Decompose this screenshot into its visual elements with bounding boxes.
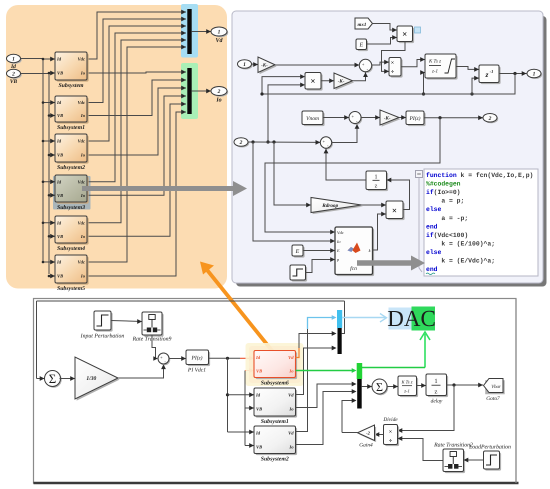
svg-text:if(Vdc<100): if(Vdc<100): [426, 232, 468, 239]
svg-text:Vdc: Vdc: [337, 230, 344, 235]
svg-text:DAC: DAC: [387, 306, 436, 331]
svg-text:2: 2: [217, 89, 221, 95]
svg-text:VB: VB: [57, 234, 63, 239]
svg-text:else: else: [426, 206, 442, 213]
svg-text:×: ×: [392, 205, 397, 215]
svg-text:Vdc: Vdc: [78, 179, 85, 184]
svg-text:%#codegen: %#codegen: [426, 181, 461, 188]
svg-text:Io: Io: [288, 444, 294, 449]
svg-text:fcn: fcn: [350, 266, 357, 272]
svg-text:mx1: mx1: [358, 22, 367, 28]
svg-text:Vdc: Vdc: [78, 139, 85, 144]
svg-text:if(Io>=0): if(Io>=0): [426, 189, 461, 196]
svg-text:×: ×: [310, 76, 315, 86]
svg-text:VB: VB: [57, 274, 63, 279]
svg-text:-K-: -K-: [261, 63, 268, 69]
svg-text:Vdc: Vdc: [78, 57, 85, 62]
svg-text:Gain4: Gain4: [359, 443, 373, 449]
svg-text:Io: Io: [80, 153, 86, 158]
svg-text:-K-: -K-: [338, 79, 345, 85]
svg-text:-1: -1: [490, 69, 494, 74]
svg-text:E: E: [295, 249, 300, 255]
svg-text:Vdc: Vdc: [78, 100, 85, 105]
svg-text:Io: Io: [80, 274, 86, 279]
svg-text:1/30: 1/30: [86, 376, 96, 382]
svg-text:a = -p;: a = -p;: [426, 215, 468, 222]
svg-text:Subsystem4: Subsystem4: [57, 245, 85, 252]
svg-text:VB: VB: [57, 113, 63, 118]
svg-text:VB: VB: [57, 71, 63, 76]
svg-text:Io: Io: [215, 98, 221, 104]
svg-text:Vd: Vd: [288, 393, 294, 398]
svg-text:z: z: [485, 70, 489, 79]
svg-text:Io: Io: [80, 193, 86, 198]
svg-text:1: 1: [533, 72, 536, 78]
svg-text:Subsystem2: Subsystem2: [57, 164, 85, 171]
svg-text:PI(z): PI(z): [409, 116, 421, 122]
svg-text:z: z: [435, 389, 438, 396]
svg-text:Subsystem1: Subsystem1: [57, 124, 85, 131]
svg-text:Subsystem3: Subsystem3: [57, 204, 85, 211]
svg-text:VB: VB: [57, 193, 63, 198]
svg-text:VB: VB: [57, 153, 63, 158]
svg-text:z-1: z-1: [431, 69, 438, 75]
svg-text:PI(z): PI(z): [191, 356, 203, 362]
svg-text:Vbar: Vbar: [491, 384, 501, 390]
svg-text:k = (E/Vdc)^a;: k = (E/Vdc)^a;: [426, 258, 495, 265]
svg-text:K Ts z: K Ts z: [400, 380, 412, 385]
svg-text:Io: Io: [288, 368, 294, 373]
svg-text:+: +: [160, 355, 163, 360]
svg-text:delay: delay: [431, 399, 443, 405]
svg-text:2: 2: [11, 72, 15, 78]
svg-text:2: 2: [239, 140, 243, 146]
svg-text:k: k: [369, 248, 371, 253]
svg-text:+: +: [351, 114, 354, 119]
svg-text:+: +: [362, 62, 365, 67]
svg-text:Vd: Vd: [215, 37, 223, 44]
svg-text:-K-: -K-: [384, 115, 391, 121]
svg-text:Input Perturbation: Input Perturbation: [80, 333, 125, 340]
svg-text:Subsystem5: Subsystem5: [57, 285, 85, 292]
svg-text:Vnom: Vnom: [306, 116, 319, 122]
svg-text:×: ×: [389, 430, 392, 436]
svg-text:×: ×: [391, 61, 394, 67]
svg-text:Subsystem: Subsystem: [58, 82, 84, 89]
svg-text:PI Vdc1: PI Vdc1: [187, 368, 206, 374]
svg-text:Divide: Divide: [382, 417, 398, 423]
svg-text:Vd: Vd: [288, 355, 294, 360]
svg-text:1: 1: [243, 62, 246, 68]
svg-text:Id: Id: [255, 393, 261, 398]
svg-text:1: 1: [434, 378, 437, 385]
svg-text:end: end: [426, 266, 438, 273]
svg-text:Id: Id: [56, 57, 62, 62]
svg-text:Subsystem1: Subsystem1: [261, 418, 289, 425]
svg-text:a = p;: a = p;: [426, 198, 464, 205]
svg-text:z-1: z-1: [403, 389, 410, 394]
svg-text:1: 1: [218, 30, 221, 36]
svg-text:z: z: [375, 184, 378, 190]
svg-text:Id: Id: [255, 431, 261, 436]
svg-text:else: else: [426, 249, 442, 256]
svg-text:Rdroop: Rdroop: [322, 203, 338, 209]
svg-text:2: 2: [488, 116, 492, 122]
svg-text:Σ: Σ: [376, 380, 383, 394]
svg-text:Rate Transition2: Rate Transition2: [433, 443, 473, 449]
svg-text:Io: Io: [80, 113, 86, 118]
svg-text:Subsystem6: Subsystem6: [261, 380, 289, 387]
svg-text:Id: Id: [255, 355, 261, 360]
svg-text:Io: Io: [80, 234, 86, 239]
svg-text:Id: Id: [56, 260, 62, 265]
svg-text:VB: VB: [256, 444, 262, 449]
svg-text:1: 1: [12, 57, 15, 63]
svg-text:end: end: [426, 223, 438, 230]
svg-text:Id: Id: [56, 220, 62, 225]
svg-text:Subsystem2: Subsystem2: [261, 456, 289, 463]
svg-text:1: 1: [375, 175, 378, 181]
svg-text:Σ: Σ: [49, 372, 56, 386]
svg-text:Vd: Vd: [288, 431, 294, 436]
svg-text:function k = fcn(Vdc,Io,E,p): function k = fcn(Vdc,Io,E,p): [426, 172, 533, 179]
svg-text:×: ×: [402, 29, 407, 39]
svg-text:Vdc: Vdc: [78, 260, 85, 265]
svg-text:k = (E/100)^a;: k = (E/100)^a;: [426, 240, 495, 247]
svg-text:E: E: [336, 248, 340, 253]
svg-text:VB: VB: [256, 407, 262, 412]
svg-text:Vdc: Vdc: [78, 220, 85, 225]
svg-text:Id: Id: [56, 100, 62, 105]
svg-text:Goto7: Goto7: [486, 396, 500, 402]
svg-text:Id: Id: [56, 139, 62, 144]
svg-text:Id: Id: [56, 179, 62, 184]
svg-text:LoadPerturbation: LoadPerturbation: [468, 444, 511, 451]
svg-text:VB: VB: [256, 368, 262, 373]
svg-text:E: E: [358, 43, 363, 49]
svg-text:K Ts z: K Ts z: [428, 59, 441, 65]
svg-text:Io: Io: [288, 407, 294, 412]
svg-text:VB: VB: [10, 79, 18, 85]
svg-text:Io: Io: [80, 71, 86, 76]
